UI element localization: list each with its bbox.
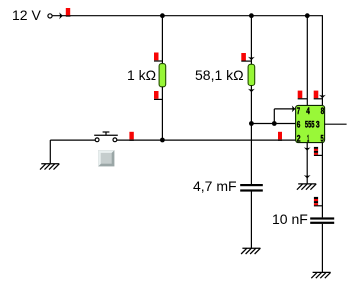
- wire C1 to ground: [250, 192, 252, 249]
- wire pin4 from top rail: [306, 16, 308, 106]
- current arrow down below R2: [248, 89, 255, 93]
- current arrow right into pin7: [292, 106, 296, 113]
- svg-text:6: 6: [297, 120, 301, 130]
- svg-text:1 kΩ: 1 kΩ: [127, 67, 156, 83]
- capacitor C1 4,7 mF plate top: [240, 184, 263, 186]
- svg-text:1: 1: [307, 134, 309, 144]
- wire trigger row left: [50, 139, 95, 141]
- probe marker M10 striped above C2: [314, 197, 323, 206]
- wire R1 top: [161, 16, 163, 64]
- switch S1 pushbutton terminal left: [95, 138, 99, 142]
- junction dot top rail / R2: [249, 13, 254, 18]
- probe marker M8 on pin8 wire: [314, 91, 319, 99]
- wire pin1 to ground: [306, 143, 308, 184]
- svg-text:7: 7: [297, 106, 300, 116]
- probe marker M4 above R2: [241, 53, 246, 61]
- capacitor C2 10 nF plate top: [310, 217, 334, 219]
- svg-text:8: 8: [321, 106, 325, 116]
- wire pin6 from R2 node: [251, 123, 295, 125]
- op-amp/timer U1 555 body: [296, 105, 325, 142]
- junction dot R2 / pin6 wire: [249, 121, 254, 126]
- terminal 12V: [48, 14, 52, 18]
- wire top rail: [52, 15, 323, 17]
- wire pin7 riser: [273, 109, 275, 124]
- probe marker M5 right of switch: [129, 132, 133, 140]
- svg-text:4: 4: [306, 106, 310, 116]
- probe marker M2 above R1: [154, 53, 159, 61]
- wire R1 bottom: [161, 87, 163, 141]
- ground left: [40, 164, 59, 170]
- wire C2 to ground: [321, 224, 323, 273]
- switch S1 lever bar: [94, 134, 118, 136]
- current arrow down on pin1 wire lower: [304, 175, 311, 179]
- probe marker M9 striped on pin5 wire: [314, 147, 323, 156]
- svg-text:58,1 kΩ: 58,1 kΩ: [195, 67, 244, 83]
- switch S1 button icon: [98, 150, 114, 166]
- wire pin5 down to C2: [321, 143, 323, 218]
- ground under C1: [241, 248, 260, 254]
- current arrow down into pin8: [319, 95, 326, 99]
- svg-text:5: 5: [321, 134, 324, 144]
- wire pin3 output: [325, 123, 347, 125]
- svg-text:2: 2: [297, 134, 301, 144]
- svg-text:4,7 mF: 4,7 mF: [193, 178, 237, 194]
- capacitor C2 10 nF plate bottom: [310, 222, 334, 224]
- junction dot pin6 / pin7 riser: [272, 121, 277, 126]
- capacitor C1 4,7 mF plate bottom: [240, 189, 263, 191]
- wire left drop to ground: [49, 140, 51, 164]
- ground under C2: [311, 272, 330, 278]
- switch S1 pushbutton terminal right: [113, 138, 117, 142]
- svg-text:10 nF: 10 nF: [272, 211, 308, 227]
- junction dot top rail / R1: [160, 13, 165, 18]
- svg-text:12 V: 12 V: [12, 7, 41, 23]
- probe marker M6 on pin2 wire: [278, 132, 282, 140]
- wire pin8 from top rail corner: [321, 16, 323, 106]
- current arrow down above R2: [248, 57, 255, 61]
- svg-text:3: 3: [316, 120, 320, 130]
- wire pin7 horizontal: [274, 108, 293, 110]
- switch S1 actuator stem: [105, 132, 107, 135]
- switch S1 actuator cap: [103, 131, 110, 133]
- wire trigger row right to pin2: [117, 139, 296, 141]
- ground under pin1: [297, 184, 316, 190]
- wire R2 bottom to C1: [250, 86, 252, 185]
- probe marker M3 below R1: [154, 91, 159, 99]
- junction dot trigger / R1 branch: [160, 138, 165, 143]
- current arrow down on pin1 wire upper: [304, 147, 311, 151]
- svg-text:555: 555: [305, 120, 315, 130]
- junction dot top rail / pin4: [305, 13, 310, 18]
- probe marker M1 on top rail: [66, 8, 70, 16]
- wire R2 top: [250, 16, 252, 65]
- current arrow right on top rail: [59, 12, 63, 19]
- resistor R2 58,1 kOhm: [248, 64, 255, 85]
- resistor R1 1 kOhm: [159, 64, 166, 87]
- probe marker M7 on pin4 wire: [298, 91, 303, 99]
